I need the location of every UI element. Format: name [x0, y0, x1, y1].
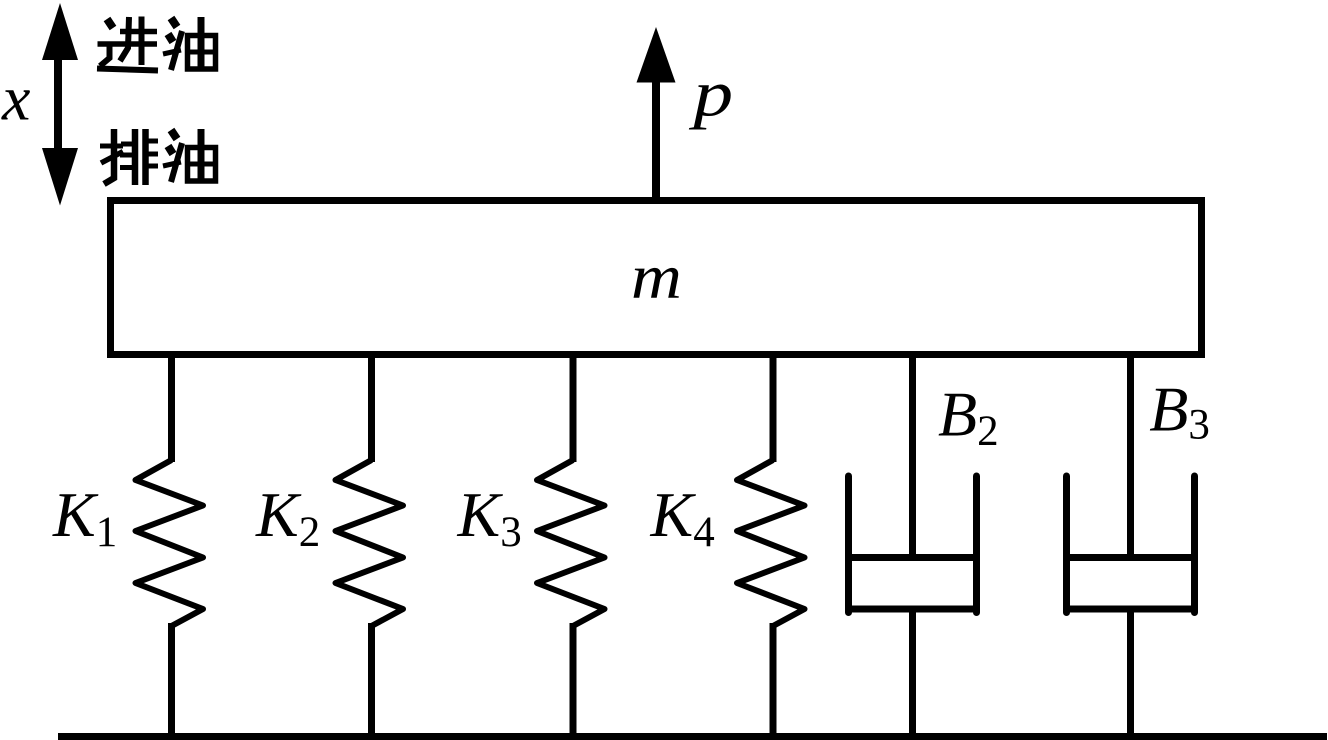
svg-text:m: m — [631, 241, 682, 312]
svg-text:p: p — [688, 57, 733, 130]
svg-text:x: x — [1, 63, 30, 134]
